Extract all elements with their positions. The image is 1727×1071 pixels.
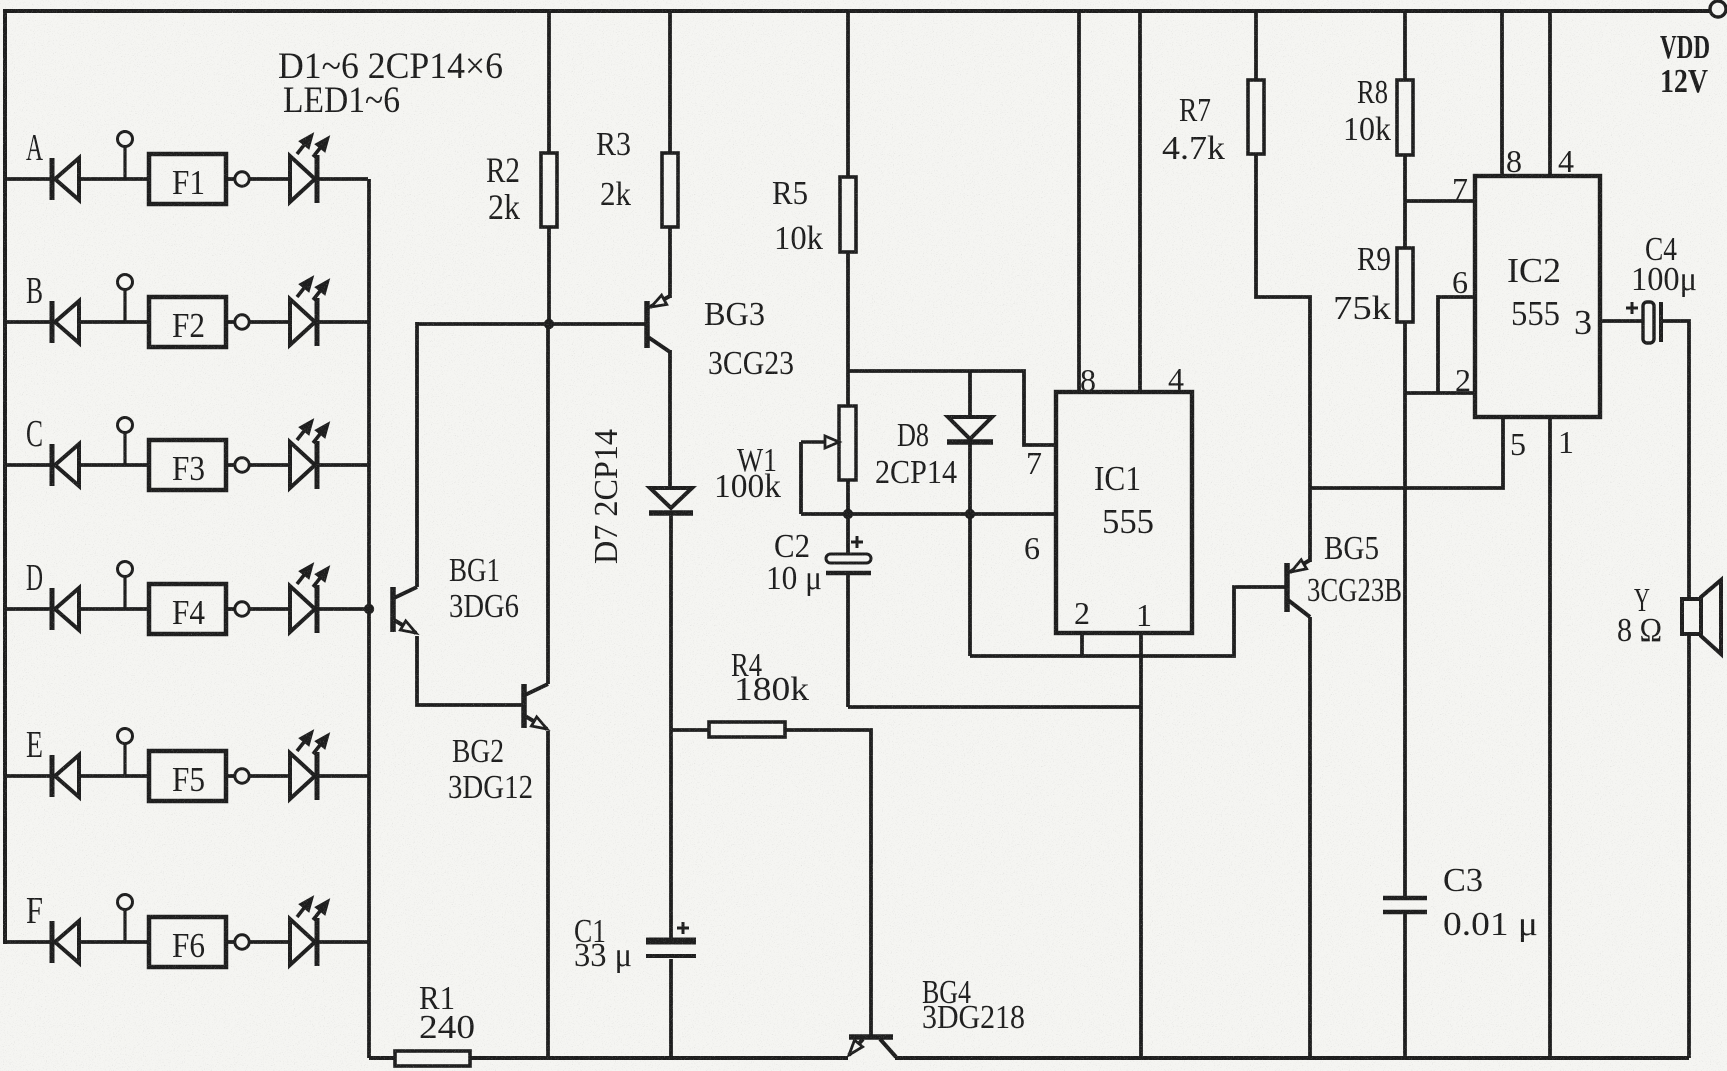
wire row B left xyxy=(5,320,52,324)
label R4 180k xyxy=(731,647,809,708)
wire bottom ground rail right xyxy=(895,1056,1689,1060)
op-amp U1 IC1 555 box xyxy=(1056,392,1192,633)
photo-resistor box F4 xyxy=(149,584,226,634)
wire R7 to BG5 emitter xyxy=(1256,154,1310,562)
wire R5 bottom xyxy=(846,252,850,406)
pin IC2 6 xyxy=(1452,264,1468,300)
label C1 33u xyxy=(574,913,632,974)
wire row F left xyxy=(5,940,52,944)
wire IC2 pin4 to rail xyxy=(1548,11,1552,176)
wire R9 bottom xyxy=(1403,322,1407,896)
wire BG1 emitter to BG2 base xyxy=(417,636,522,705)
LED LED2 xyxy=(290,278,368,346)
node junction W1 wiper xyxy=(843,509,853,519)
resistor R8 xyxy=(1397,80,1413,155)
wire bottom ground rail left xyxy=(369,1056,848,1060)
wire left border bus xyxy=(3,9,7,944)
diode D7 xyxy=(649,488,693,730)
node input F label xyxy=(26,890,43,932)
transistor BG4 xyxy=(849,1037,896,1057)
node input A label xyxy=(26,127,43,169)
wire IC1 pin8 to rail xyxy=(1077,11,1081,392)
node row C test terminal xyxy=(118,418,133,466)
wire R8 to R9 xyxy=(1403,155,1407,248)
node input C label xyxy=(26,413,43,455)
capacitor C1 xyxy=(646,922,696,1058)
pin IC2 8 xyxy=(1506,143,1522,179)
transistor BG2 xyxy=(524,684,548,729)
node VDD terminal circle xyxy=(1710,1,1726,17)
wire IC2 pin2 wire xyxy=(1405,391,1475,395)
LED LED3 xyxy=(290,421,368,489)
wire BG3 base net xyxy=(417,322,645,587)
pin IC2 2 xyxy=(1455,362,1471,398)
wire R2 top xyxy=(547,11,551,153)
node row A test terminal xyxy=(118,132,133,180)
resistor R3 xyxy=(662,153,678,227)
wire IC2 pin3 out xyxy=(1600,319,1643,323)
wire C4 to speaker xyxy=(1663,321,1689,599)
resistor R7 xyxy=(1248,80,1264,154)
wire discharge net xyxy=(848,371,1056,445)
label BG2 3DG12 xyxy=(448,733,533,806)
pin IC2 7 xyxy=(1452,171,1468,207)
node row E test terminal xyxy=(118,729,133,777)
wire BG2 emitter down xyxy=(546,731,550,1058)
wire W1 to C2 xyxy=(846,480,850,555)
resistor R5 xyxy=(840,177,856,252)
LED LED5 xyxy=(290,732,368,800)
node junction bus row D xyxy=(364,604,374,614)
LED LED6 xyxy=(290,898,368,966)
wire IC1 pin4 to rail xyxy=(1138,11,1142,392)
wire trigger net to BG5 base xyxy=(970,587,1285,656)
wire IC2 pin1 ground xyxy=(1548,417,1552,1058)
label IC2 555 3 xyxy=(1507,251,1592,342)
wire IC1 pin2 down xyxy=(1080,633,1084,656)
node row D output terminal xyxy=(226,602,290,616)
wire speaker to ground xyxy=(1687,634,1691,1058)
node row B output terminal xyxy=(226,315,290,329)
caption LED1~6 xyxy=(283,80,400,121)
diode D1 xyxy=(52,158,149,200)
label R7 4.7k xyxy=(1162,92,1225,167)
resistor R2 xyxy=(541,153,557,227)
wire R4 to BG4 base xyxy=(785,730,871,1035)
wire D7 to C1 xyxy=(669,730,673,938)
photo-resistor box F5 xyxy=(149,751,226,801)
label R2 2k xyxy=(486,150,520,227)
node row D test terminal xyxy=(118,562,133,610)
diode D3 xyxy=(52,444,149,486)
pin IC2 4 xyxy=(1558,143,1574,179)
resistor R1 xyxy=(395,1051,470,1066)
photo-resistor box F6 xyxy=(149,917,226,967)
capacitor C4 xyxy=(1626,302,1661,343)
LED LED1 xyxy=(290,135,368,203)
wire LED cathode bus xyxy=(367,179,371,1058)
node input D label xyxy=(26,557,43,599)
label C3 0.01u xyxy=(1443,862,1538,943)
wire row E left xyxy=(5,774,52,778)
scan noise texture xyxy=(0,0,1,1)
photo-resistor box F1 xyxy=(149,154,226,204)
pin IC1 8 xyxy=(1080,362,1096,398)
node row B test terminal xyxy=(118,275,133,323)
node row F output terminal xyxy=(226,935,290,949)
wire BG5 collector down xyxy=(1308,617,1312,1058)
pin IC1 4 xyxy=(1168,361,1184,397)
wire R5 top xyxy=(846,11,850,177)
node row C output terminal xyxy=(226,458,290,472)
photo-resistor box F2 xyxy=(149,297,226,347)
label IC1 555 xyxy=(1094,459,1154,541)
label C4 100u xyxy=(1631,231,1697,298)
wire top VDD rail xyxy=(5,9,1711,13)
pin IC1 7 xyxy=(1026,445,1042,481)
transistor BG3 xyxy=(647,295,670,352)
diode D2 xyxy=(52,301,149,343)
wire row C left xyxy=(5,463,52,467)
node row A output terminal xyxy=(226,172,290,186)
capacitor C2 xyxy=(826,536,871,707)
wire R7 top xyxy=(1254,11,1258,80)
wire row A left xyxy=(5,177,52,181)
wire row D left xyxy=(5,607,52,611)
pin IC1 2 xyxy=(1074,595,1090,631)
wire R8 top xyxy=(1403,11,1407,80)
label R8 10k xyxy=(1343,74,1391,148)
pin IC2 5 xyxy=(1510,426,1526,462)
pin IC1 1 xyxy=(1136,597,1152,633)
wire threshold net pin6 xyxy=(801,512,1056,516)
node junction R2 base net xyxy=(544,319,554,329)
caption D1~6 2CP14x6 xyxy=(278,46,503,87)
label W1 100k xyxy=(714,442,781,505)
photo-resistor box F3 xyxy=(149,440,226,490)
diode D5 xyxy=(52,755,149,797)
wire C2 to pin1 rail xyxy=(848,705,1141,709)
label BG3 3CG23 xyxy=(704,296,794,382)
diode D6 xyxy=(52,921,149,963)
label Y 8ohm xyxy=(1617,582,1662,649)
label BG4 3DG218 xyxy=(922,974,1025,1036)
pin IC1 6 xyxy=(1024,530,1040,566)
node input E label xyxy=(26,724,43,766)
wire R4 left xyxy=(671,728,709,732)
diode D4 xyxy=(52,588,149,630)
wire IC1 pin1 ground xyxy=(1139,633,1143,1058)
wire R3 top xyxy=(668,11,672,153)
label R9 75k xyxy=(1333,241,1391,327)
resistor R9 xyxy=(1397,248,1413,322)
node row F test terminal xyxy=(118,895,133,943)
label D7 2CP14 xyxy=(588,429,625,564)
pin IC2 1 xyxy=(1558,424,1574,460)
node junction D8 threshold xyxy=(965,509,975,519)
label C2 10u xyxy=(766,528,822,597)
node input B label xyxy=(26,270,43,312)
wire R3 to BG3 emitter xyxy=(668,227,672,298)
label R1 240 xyxy=(419,980,475,1046)
capacitor C3 xyxy=(1383,898,1427,1058)
transistor BG5 xyxy=(1287,560,1310,617)
label BG1 3DG6 xyxy=(449,552,519,625)
label R5 10k xyxy=(772,175,823,257)
label D8 2CP14 xyxy=(875,417,957,491)
wire BG2 collector up xyxy=(546,324,550,684)
potentiometer W1 xyxy=(801,406,856,514)
wire IC2 pin8 to rail xyxy=(1500,11,1504,176)
wire IC2 pin7 xyxy=(1405,199,1475,203)
resistor R4 xyxy=(709,722,785,737)
diode D8 xyxy=(947,371,993,656)
label R3 2k xyxy=(596,126,631,213)
speaker Y xyxy=(1682,580,1721,654)
wire R2 bottom to junction xyxy=(547,227,551,324)
label BG5 3CG23B xyxy=(1307,530,1402,609)
wire IC2 pin6 loop xyxy=(1438,297,1475,393)
op-amp U2 IC2 555 box xyxy=(1475,176,1600,417)
wire BG5 to IC2 pin5 xyxy=(1310,417,1503,488)
net label VDD 12V xyxy=(1660,29,1710,100)
wire BG3 collector to D7 xyxy=(668,350,672,487)
node row E output terminal xyxy=(226,769,290,783)
transistor BG1 xyxy=(393,587,417,633)
LED LED4 xyxy=(290,565,368,633)
